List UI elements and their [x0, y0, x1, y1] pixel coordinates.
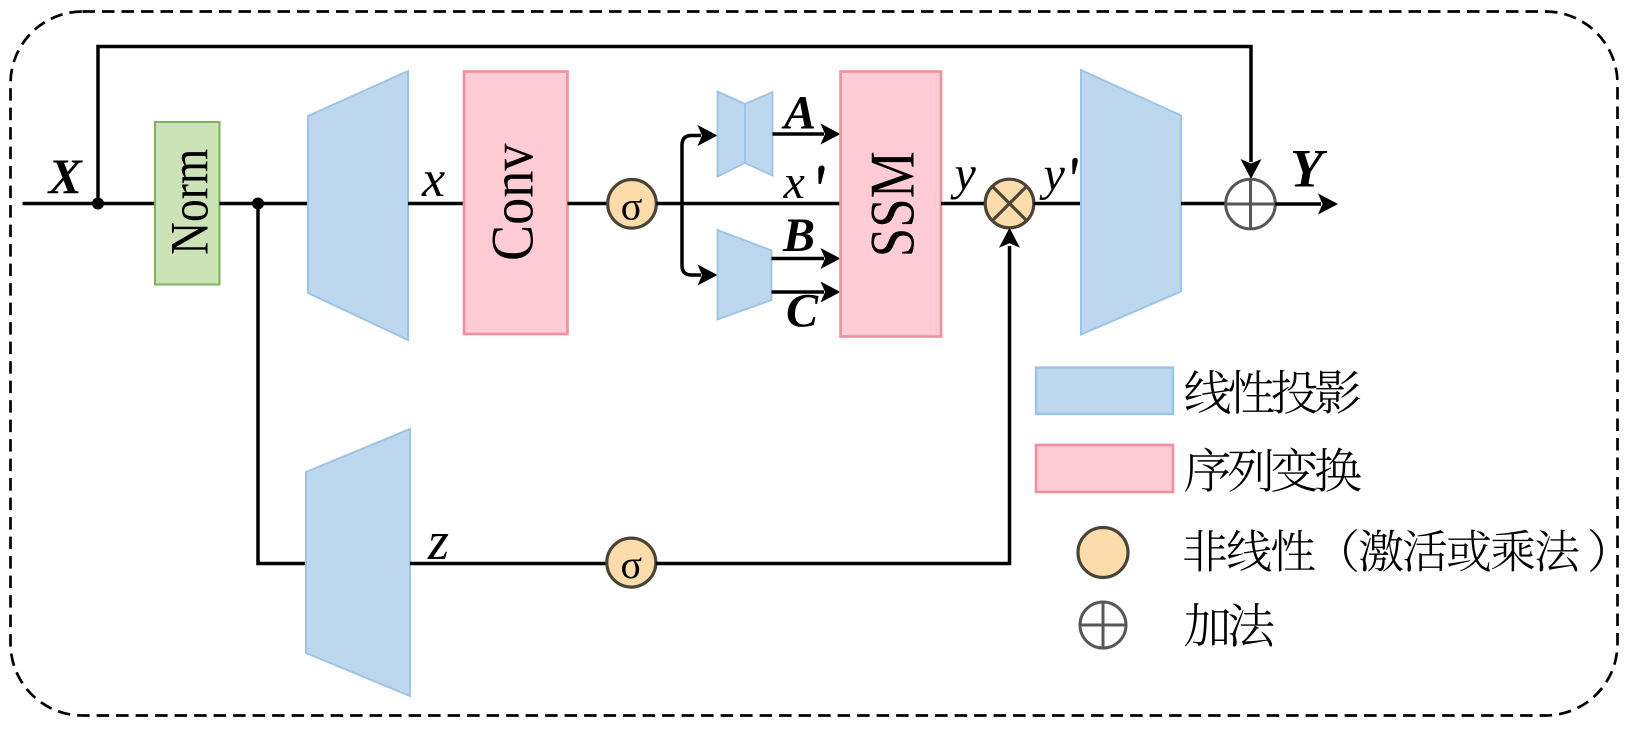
wire C into SSM — [772, 290, 825, 294]
wire SSM to multiplier (y) — [941, 202, 986, 206]
wire sigma2 to multiplier — [656, 246, 1010, 564]
svg-text:Norm: Norm — [160, 149, 220, 255]
z gate projection trapezoid (expand) — [306, 429, 410, 696]
z branch wire down — [258, 204, 306, 564]
output linear projection trapezoid (contract) — [1081, 70, 1181, 335]
wire multiplier to output projection — [1034, 202, 1081, 206]
wire sigma to SSM (x-prime) — [656, 202, 840, 206]
output arrowhead — [1318, 194, 1338, 215]
svg-text:B: B — [782, 209, 815, 262]
output wire Y — [1275, 202, 1321, 206]
adder plus — [1226, 179, 1276, 229]
svg-text:C: C — [786, 285, 819, 338]
BC projection trapezoid (contract) — [718, 230, 772, 320]
junction dot 1 — [92, 198, 104, 210]
branch down to BC projection — [682, 204, 701, 276]
legend adder plus — [1080, 602, 1126, 648]
legend blue swatch — [1036, 368, 1173, 415]
Norm box — [155, 122, 220, 285]
wire A into SSM — [773, 132, 825, 136]
svg-text:x: x — [783, 156, 805, 209]
prime mark of x-prime — [818, 165, 824, 183]
svg-text:x: x — [421, 151, 445, 208]
prime mark of y-prime — [1072, 158, 1078, 174]
wire z to sigma2 — [410, 562, 607, 566]
legend text nonlinearity — [1184, 529, 1579, 572]
svg-text:A: A — [781, 87, 816, 140]
arrowhead into multiplier — [999, 228, 1020, 248]
junction dot 2 — [252, 198, 264, 210]
input wire X — [23, 202, 156, 206]
input linear projection trapezoid (expand) — [308, 71, 408, 340]
legend text sequence transform — [1185, 447, 1361, 491]
arrowhead into BC projection — [698, 265, 718, 286]
legend text closing paren — [1590, 529, 1603, 572]
svg-text:σ: σ — [621, 183, 643, 228]
A projection bowtie right half — [745, 92, 773, 176]
svg-text:y: y — [1039, 148, 1066, 201]
wire Conv to sigma — [568, 202, 609, 206]
Conv box — [464, 72, 568, 335]
arrowhead into adder — [1241, 159, 1262, 179]
residual skip wire — [98, 47, 1251, 204]
sigma circle 2 — [607, 538, 656, 587]
arrowhead A into SSM — [821, 124, 841, 145]
A projection bowtie left half — [718, 92, 746, 177]
legend adder circle — [1080, 602, 1126, 648]
wire x to Conv — [408, 202, 464, 206]
arrowhead B into SSM — [821, 248, 841, 269]
svg-text:y: y — [950, 148, 977, 201]
arrowhead C into SSM — [821, 282, 841, 303]
wire projection to adder — [1181, 202, 1226, 206]
legend pink swatch — [1036, 445, 1173, 492]
wire B into SSM — [772, 257, 825, 261]
multiplier cross — [993, 187, 1027, 221]
wire Norm to projection — [220, 202, 309, 206]
branch up to A projection — [682, 136, 701, 204]
svg-text:Y: Y — [1290, 139, 1328, 199]
svg-text:Conv: Conv — [480, 144, 546, 261]
SSM box — [841, 72, 942, 337]
sigma circle 1 — [608, 180, 657, 229]
multiplier circle — [985, 179, 1034, 228]
legend text linear projection — [1185, 370, 1360, 414]
adder circle — [1226, 179, 1276, 229]
svg-text:σ: σ — [621, 542, 643, 587]
svg-text:SSM: SSM — [857, 151, 928, 257]
arrowhead into A projection — [698, 125, 718, 146]
legend text addition — [1185, 603, 1274, 647]
svg-text:X: X — [47, 148, 84, 204]
legend nonlinearity circle — [1078, 528, 1128, 578]
